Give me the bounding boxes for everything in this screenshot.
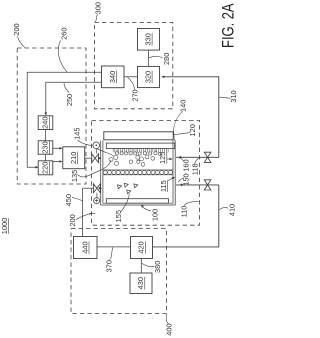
sensor stub below valve2 [96,193,98,198]
leader 400 [166,314,168,324]
svg-text:280: 280 [162,53,171,65]
nozzle stems [113,149,168,153]
sensor circle with dot 145 [93,142,100,149]
svg-text:420: 420 [137,241,146,253]
arrow pipe2 into vessel [99,187,102,190]
pipe 2: to vessel through valve [83,187,94,189]
wire 240-230 [45,130,47,141]
svg-text:380: 380 [153,261,162,273]
pipe 3 upper right [176,156,219,158]
arrow into 210 lower [59,160,62,163]
headplate bar 120 [104,132,173,140]
vessel outer wall [101,141,176,206]
pipe 1: 210 to vessel through valve [85,157,92,159]
svg-text:340: 340 [108,71,117,83]
box 340 [102,66,125,88]
valve 1 [92,154,99,163]
sensor stub above valve1 [95,149,97,154]
leader 370 [109,247,113,259]
svg-text:125: 125 [158,152,167,164]
svg-text:430: 430 [136,277,145,289]
sparger bar 125 [106,143,174,148]
box 420 [131,237,153,259]
box 210 [63,147,85,169]
wire 310: from pipe3 up and left into 320 [163,77,219,158]
leader 140 [174,111,183,141]
leader 380 [142,263,155,266]
pipe 4 lower right [176,184,219,186]
svg-text:370: 370 [105,260,114,272]
leader 270 [128,77,135,89]
leader 310 [219,97,231,98]
box 320 [138,66,160,87]
leader 450 [72,197,82,200]
wire 230 to 210 [53,147,61,149]
arrow on pipe 3 pointing right [179,156,182,159]
svg-text:410: 410 [228,204,237,216]
bottom plate bar [106,199,168,204]
leader 280 [149,56,163,57]
arrow into 240 [45,112,48,115]
leader 110 [184,201,199,205]
leader 160 [180,158,184,162]
leader 135 to bubble [78,160,112,177]
text labels rotated [0,2,238,336]
valve 2 [93,184,100,193]
dashed box 400 [71,229,166,314]
svg-text:250: 250 [65,94,74,106]
arrow into 320 [161,76,164,79]
svg-text:300: 300 [94,2,103,14]
box 230 [38,141,53,154]
svg-text:110: 110 [180,206,189,218]
svg-text:400: 400 [165,323,174,335]
leader 250 [64,83,69,93]
svg-text:450: 450 [64,194,73,206]
rising bubbles [109,155,155,166]
svg-text:210: 210 [69,152,78,164]
frit band 115 top line [103,169,173,171]
svg-text:135: 135 [70,170,79,182]
wire 270: 340 to 320 [124,76,138,78]
svg-text:200: 200 [12,23,21,35]
sensor probe curve into bubbles [97,149,114,157]
svg-text:160: 160 [181,159,190,171]
svg-text:118: 118 [190,163,199,175]
dashed box 300 [95,22,173,108]
wire 410 loop: down and left into 420 [153,185,219,247]
svg-text:FIG. 2A: FIG. 2A [220,3,238,48]
svg-text:310: 310 [229,90,238,102]
arrow into 210 upper [59,147,62,150]
bubbles at nozzle tips [115,152,161,156]
svg-text:1000: 1000 [0,218,9,234]
leader 120 [174,133,190,135]
leader 150 [178,178,184,182]
box 430 [130,273,152,294]
frit band circles [103,170,172,174]
leader 300 [95,15,98,23]
wire 230-220 [45,154,47,161]
svg-text:320: 320 [144,71,153,83]
frit band bottom line [103,174,173,176]
wire 280: 330 to 320 [148,50,150,66]
svg-text:220: 220 [41,162,50,174]
svg-text:100: 100 [150,209,159,221]
leader 410 [219,208,228,210]
leader 125 arrow [167,158,171,160]
leader 260 [58,41,67,73]
wire 260: 340 left to down to 220 [27,72,101,167]
wire 370: 440 to 420 [97,246,131,248]
wire 450: from pipe2 corner down to 440 [82,188,84,236]
leader 100 with arrow [142,206,152,211]
leader 200 top [18,36,26,48]
svg-text:200: 200 [68,214,77,226]
dashed box 200 [17,48,86,184]
wire 250: 340 left to down into 240 [46,82,102,114]
leader 115 arrow [167,178,173,181]
svg-text:270: 270 [131,89,140,101]
wire 380: 420 to 430 [140,259,142,274]
svg-text:115: 115 [159,180,168,192]
svg-text:260: 260 [60,28,69,40]
vessel inner wall [103,141,173,204]
dashed box 110 [92,120,200,225]
arrow on pipe 4 pointing right [181,184,184,187]
leader 200 lower with tick [76,214,92,220]
underline 330 [151,33,153,46]
sensor gauge circle with plus [94,198,100,204]
leader 155 [121,194,130,212]
valve on pipe 3 [204,152,211,162]
leader 145 [78,140,94,145]
box 220 [38,161,53,175]
svg-text:155: 155 [114,210,123,222]
arrow pipe1 into vessel [98,157,101,160]
valve on pipe 4 [204,180,211,190]
arrow into 220 [35,166,38,169]
box 440 [74,237,98,259]
box 330 [138,29,160,51]
svg-text:230: 230 [41,141,50,153]
leader 118 [195,158,200,164]
solids triangles 155 [118,183,138,193]
svg-text:140: 140 [179,100,188,112]
svg-text:440: 440 [80,241,89,253]
svg-text:120: 120 [188,124,197,136]
box 240 [38,116,53,130]
svg-text:330: 330 [144,33,153,45]
svg-text:240: 240 [41,117,50,129]
wire 220 to 210 [53,161,61,163]
svg-text:145: 145 [73,128,82,140]
